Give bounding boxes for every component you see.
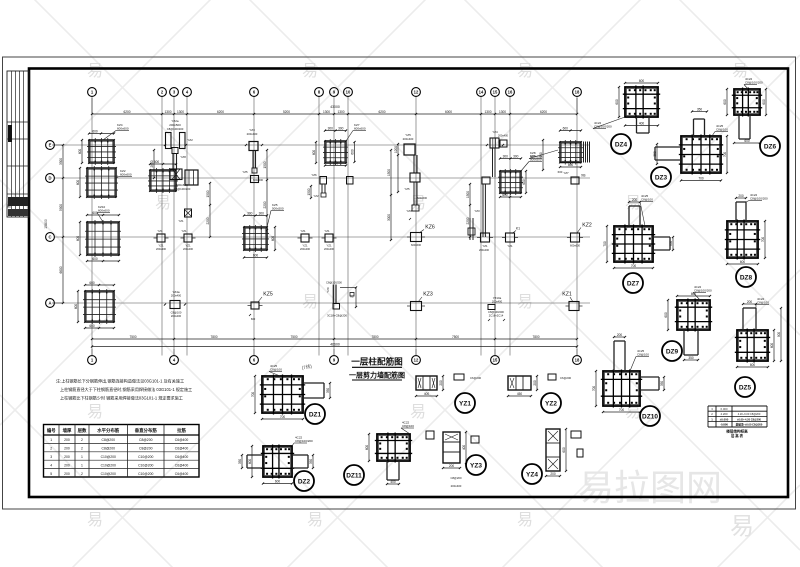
axis vertical lines <box>92 97 577 356</box>
svg-text:6000: 6000 <box>445 110 452 114</box>
svg-text:200: 200 <box>533 380 537 386</box>
svg-text:层数: 层数 <box>78 427 87 434</box>
svg-text:易: 易 <box>517 512 533 529</box>
svg-text:C8@100: C8@100 <box>716 128 728 132</box>
top axis circles <box>88 88 582 97</box>
svg-text:拉筋: 拉筋 <box>177 427 186 434</box>
svg-text:YZ7: YZ7 <box>563 171 569 175</box>
detail YZ3 <box>442 431 486 488</box>
wall column (A-9) <box>326 281 357 318</box>
svg-text:200x400: 200x400 <box>479 248 490 252</box>
svg-text:YZ1: YZ1 <box>300 229 306 233</box>
svg-text:1300: 1300 <box>337 110 344 114</box>
svg-text:600: 600 <box>154 160 160 164</box>
svg-text:DZ10: DZ10 <box>642 413 658 420</box>
svg-text:200: 200 <box>738 194 744 198</box>
svg-text:C10@200: C10@200 <box>138 463 153 467</box>
svg-text:14: 14 <box>479 90 484 95</box>
svg-text:C8@100/200: C8@100/200 <box>750 197 768 201</box>
svg-text:200x400: 200x400 <box>492 299 503 303</box>
detail DZ3 <box>651 108 728 188</box>
svg-text:300: 300 <box>247 212 253 216</box>
svg-text:C10@200: C10@200 <box>101 455 116 459</box>
bottom dimension lines <box>91 335 578 348</box>
svg-text:600: 600 <box>502 193 508 197</box>
detail DZ2 <box>238 436 314 492</box>
svg-text:600: 600 <box>563 127 569 131</box>
KZ1 square (A-18) <box>562 292 582 311</box>
svg-text:4.200: 4.200 <box>721 412 728 416</box>
svg-text:900: 900 <box>777 332 781 338</box>
svg-text:YZ1: YZ1 <box>482 244 488 248</box>
svg-text:XB: XB <box>581 174 586 178</box>
column (D-15) <box>498 154 542 198</box>
svg-text:6600: 6600 <box>59 266 63 273</box>
main title <box>349 356 405 381</box>
svg-text:易: 易 <box>410 404 426 421</box>
svg-text:300: 300 <box>259 212 265 216</box>
wall column (E-15) <box>474 130 508 237</box>
svg-text:垂直分布筋: 垂直分布筋 <box>135 427 158 434</box>
svg-text:易: 易 <box>517 294 533 311</box>
KZ2 square (C-18) <box>567 223 592 248</box>
svg-text:易: 易 <box>517 63 533 80</box>
svg-text:C8@200: C8@200 <box>102 438 116 442</box>
svg-text:600: 600 <box>312 150 316 156</box>
wall columns (D-9) <box>307 173 353 199</box>
svg-text:16: 16 <box>508 90 513 95</box>
svg-text:1200: 1200 <box>394 146 398 153</box>
svg-text:700: 700 <box>280 415 286 419</box>
svg-text:600: 600 <box>92 130 98 134</box>
svg-text:600: 600 <box>750 363 756 367</box>
svg-text:200x400: 200x400 <box>403 137 414 141</box>
svg-text:3000: 3000 <box>387 214 391 221</box>
svg-text:DZ8: DZ8 <box>740 274 753 281</box>
svg-text:D: D <box>48 176 51 181</box>
svg-text:18: 18 <box>575 90 580 95</box>
svg-text:C8@200: C8@200 <box>139 438 153 442</box>
wall squares (C-8,C-9) <box>298 229 337 251</box>
svg-text:YZ5: YZ5 <box>404 187 410 191</box>
svg-text:A: A <box>48 301 51 306</box>
svg-text:5900: 5900 <box>59 204 63 211</box>
svg-text:200: 200 <box>64 447 70 451</box>
svg-text:注:上柱钢筋长下分钢筋伸出,钢筋连接构造做法见03G101-: 注:上柱钢筋长下分钢筋伸出,钢筋连接构造做法见03G101-1 及有关施工 <box>56 378 184 384</box>
svg-text:46600: 46600 <box>330 343 340 347</box>
svg-text:1300: 1300 <box>323 110 330 114</box>
svg-text:700: 700 <box>592 386 596 392</box>
svg-text:12: 12 <box>414 90 419 95</box>
svg-text:600: 600 <box>275 480 281 484</box>
watermark glyphs <box>87 63 748 529</box>
svg-text:1: 1 <box>50 438 52 442</box>
svg-text:200x400: 200x400 <box>171 314 182 318</box>
svg-text:C8@200: C8@200 <box>450 476 462 480</box>
svg-text:一层柱配筋图: 一层柱配筋图 <box>351 356 403 367</box>
svg-text:300: 300 <box>338 127 344 131</box>
svg-text:5200: 5200 <box>283 110 290 114</box>
detail DZ10 <box>592 333 665 426</box>
svg-text:200x400: 200x400 <box>183 247 194 251</box>
svg-text:C8@100: C8@100 <box>757 301 769 305</box>
svg-text:C8@100/200: C8@100/200 <box>488 310 504 314</box>
column KZ4 (E-1) <box>78 123 129 165</box>
svg-text:12: 12 <box>414 358 419 363</box>
svg-text:±0.000: ±0.000 <box>720 417 729 421</box>
svg-text:2: 2 <box>81 472 83 476</box>
svg-text:7500: 7500 <box>452 335 459 339</box>
svg-text:300: 300 <box>503 155 509 159</box>
svg-text:43000: 43000 <box>330 105 340 109</box>
svg-text:600: 600 <box>615 99 619 105</box>
svg-text:C8@100: C8@100 <box>270 368 282 372</box>
svg-text:300: 300 <box>513 155 519 159</box>
detail YZ4 <box>522 428 583 484</box>
svg-text:C10@200: C10@200 <box>138 472 153 476</box>
svg-text:上柱钢筋直径大于下柱钢筋直径时,钢筋采用焊接做法 03G10: 上柱钢筋直径大于下柱钢筋直径时,钢筋采用焊接做法 03G101-1 规定施工 <box>60 386 192 392</box>
svg-text:200: 200 <box>439 380 443 386</box>
svg-text:YZ3: YZ3 <box>406 209 412 213</box>
svg-text:易: 易 <box>730 513 754 540</box>
svg-text:KZ3: KZ3 <box>423 292 433 298</box>
svg-text:600: 600 <box>76 236 80 242</box>
svg-text:YZ2: YZ2 <box>313 194 319 198</box>
wall squares (C-2,C-3) <box>154 229 196 251</box>
svg-text:DZ11: DZ11 <box>346 472 362 479</box>
svg-text:YZ1: YZ1 <box>507 244 513 248</box>
svg-text:KZ1: KZ1 <box>562 292 572 298</box>
svg-text:C8@100/200: C8@100/200 <box>295 439 313 443</box>
svg-text:C: C <box>48 235 51 240</box>
svg-text:200: 200 <box>64 438 70 442</box>
svg-text:层 高 表: 层 高 表 <box>730 433 744 438</box>
svg-text:600: 600 <box>723 99 727 105</box>
svg-text:200: 200 <box>550 472 556 476</box>
svg-text:600: 600 <box>770 343 774 349</box>
column KZ8 (E-18) <box>529 127 590 178</box>
svg-text:YZ1: YZ1 <box>157 229 163 233</box>
svg-text:7500: 7500 <box>290 335 297 339</box>
svg-text:2: 2 <box>81 447 83 451</box>
squares (C-13,C-15,C-16) <box>468 218 518 252</box>
legend table <box>708 406 767 438</box>
svg-text:700: 700 <box>723 152 727 158</box>
svg-text:2200: 2200 <box>466 217 470 224</box>
svg-text:200: 200 <box>449 464 455 468</box>
svg-text:600: 600 <box>76 180 80 186</box>
svg-text:4.20~6.00 C8@200: 4.20~6.00 C8@200 <box>738 412 761 416</box>
top dimension line <box>91 98 578 115</box>
svg-text:基础顶~±0.00 C8@200: 基础顶~±0.00 C8@200 <box>735 423 763 427</box>
stamp note <box>301 363 313 371</box>
svg-text:C8@100: C8@100 <box>171 311 182 315</box>
svg-text:1300: 1300 <box>499 110 506 114</box>
svg-text:1300: 1300 <box>177 110 184 114</box>
detail YZ2 <box>507 374 572 413</box>
svg-text:600x600: 600x600 <box>417 196 428 200</box>
svg-text:C10@200: C10@200 <box>138 455 153 459</box>
svg-text:DZ2: DZ2 <box>298 478 311 485</box>
svg-text:350: 350 <box>238 459 242 465</box>
svg-text:5: 5 <box>50 472 52 476</box>
detail DZ4 <box>593 79 660 154</box>
svg-text:2200: 2200 <box>206 217 210 224</box>
svg-text:200: 200 <box>64 455 70 459</box>
svg-text:C8@100/200: C8@100/200 <box>167 127 184 131</box>
svg-text:4: 4 <box>50 463 52 467</box>
svg-text:YZ1: YZ1 <box>324 229 330 233</box>
svg-text:600: 600 <box>562 447 566 453</box>
svg-text:C6@400: C6@400 <box>175 455 189 459</box>
svg-text:200x400: 200x400 <box>451 484 462 488</box>
svg-text:350: 350 <box>309 459 313 465</box>
svg-text:1500: 1500 <box>263 161 267 168</box>
svg-text:350: 350 <box>688 356 694 360</box>
svg-text:DZ4: DZ4 <box>615 141 628 148</box>
svg-text:1500: 1500 <box>206 190 210 197</box>
svg-text:600: 600 <box>92 257 98 261</box>
svg-text:600: 600 <box>664 312 668 318</box>
svg-text:易: 易 <box>87 404 103 421</box>
svg-text:200x400: 200x400 <box>156 247 167 251</box>
svg-text:YZ1: YZ1 <box>178 219 184 223</box>
svg-text:楼层结构标高: 楼层结构标高 <box>726 429 748 434</box>
axis horizontal lines <box>55 145 591 303</box>
svg-text:C8@200: C8@200 <box>139 447 153 451</box>
svg-text:350: 350 <box>697 108 703 112</box>
svg-text:600: 600 <box>89 281 95 285</box>
svg-text:YZ1: YZ1 <box>326 244 332 248</box>
svg-text:600: 600 <box>78 149 82 155</box>
detail YZ1 <box>415 374 482 413</box>
wall column (E-12) <box>394 133 428 211</box>
svg-text:C8@100/200: C8@100/200 <box>326 281 342 285</box>
svg-text:400: 400 <box>639 122 645 126</box>
svg-text:600: 600 <box>248 459 252 465</box>
svg-text:DZ7: DZ7 <box>627 280 640 287</box>
svg-text:YZ4: YZ4 <box>492 130 498 134</box>
svg-text:DZ6: DZ6 <box>764 143 777 150</box>
inner thick border <box>29 69 788 498</box>
svg-text:700: 700 <box>761 237 765 243</box>
svg-text:C8@100: C8@100 <box>637 353 649 357</box>
svg-text:300: 300 <box>328 127 334 131</box>
svg-text:200: 200 <box>632 198 638 202</box>
detail DZ6 <box>723 77 780 156</box>
svg-text:YZ3: YZ3 <box>474 209 480 213</box>
svg-text:C8@100/200: C8@100/200 <box>694 289 712 293</box>
svg-text:YZ5: YZ5 <box>242 170 248 174</box>
svg-text:200x400: 200x400 <box>324 247 335 251</box>
svg-text:易: 易 <box>87 63 103 80</box>
svg-text:YZ1: YZ1 <box>181 229 187 233</box>
wall column (E-6) <box>242 128 263 183</box>
svg-text:3300: 3300 <box>59 158 63 165</box>
svg-text:C10@200: C10@200 <box>101 463 116 467</box>
svg-text:600: 600 <box>351 149 355 155</box>
svg-text:DZ1: DZ1 <box>309 411 322 418</box>
svg-text:200: 200 <box>747 300 753 304</box>
svg-text:350: 350 <box>326 388 330 394</box>
svg-text:200x400: 200x400 <box>171 294 182 298</box>
svg-text:易拉图网: 易拉图网 <box>578 467 722 508</box>
svg-text:KZ5: KZ5 <box>263 292 273 298</box>
detail DZ5 <box>735 297 782 397</box>
column KZ10 (C-1) <box>76 205 121 262</box>
column KZ5-section (C-6) <box>242 203 284 259</box>
svg-text:易: 易 <box>87 512 103 529</box>
svg-text:C6@400: C6@400 <box>175 472 189 476</box>
svg-text:200: 200 <box>64 472 70 476</box>
svg-text:200x400: 200x400 <box>498 134 509 138</box>
svg-text:600: 600 <box>740 260 746 264</box>
svg-text:400: 400 <box>462 445 466 451</box>
svg-text:K2: K2 <box>350 295 354 299</box>
KZ6 square (C-12) <box>407 225 435 248</box>
wall column (A-4) <box>164 290 186 318</box>
detail DZ9 <box>662 285 712 361</box>
svg-text:DZ5: DZ5 <box>739 384 752 391</box>
svg-text:600: 600 <box>639 79 645 83</box>
svg-text:C6@400: C6@400 <box>175 463 189 467</box>
svg-text:700: 700 <box>603 241 607 247</box>
svg-text:编号: 编号 <box>47 427 56 434</box>
svg-text:700: 700 <box>698 177 704 181</box>
KZ3 square (A-12) <box>407 292 433 311</box>
rebar table <box>44 425 200 478</box>
svg-text:700: 700 <box>631 264 637 268</box>
svg-text:易: 易 <box>302 294 318 311</box>
detail DZ8 <box>725 193 768 287</box>
svg-text:2200: 2200 <box>263 201 267 208</box>
svg-text:E: E <box>49 143 52 148</box>
svg-text:2C16+2C14: 2C16+2C14 <box>489 314 504 318</box>
svg-text:600x600: 600x600 <box>120 173 132 177</box>
svg-text:6200: 6200 <box>123 110 130 114</box>
wall column (D-18) <box>563 171 579 184</box>
svg-text:C8@100: C8@100 <box>641 198 653 202</box>
svg-text:450: 450 <box>517 392 523 396</box>
svg-text:700: 700 <box>619 408 625 412</box>
svg-text:500x500: 500x500 <box>272 207 284 211</box>
svg-text:7500: 7500 <box>129 335 136 339</box>
svg-text:400: 400 <box>424 392 430 396</box>
svg-text:1500: 1500 <box>466 191 470 198</box>
notes <box>56 378 192 401</box>
svg-text:DZ9: DZ9 <box>666 348 679 355</box>
svg-text:1: 1 <box>81 463 83 467</box>
svg-text:200: 200 <box>617 333 623 337</box>
svg-text:600x600: 600x600 <box>570 244 581 248</box>
svg-text:6200: 6200 <box>378 110 385 114</box>
svg-text:350: 350 <box>660 381 664 387</box>
svg-text:YZ3: YZ3 <box>470 462 482 469</box>
svg-text:YZ1: YZ1 <box>459 400 471 407</box>
svg-text:600: 600 <box>365 445 369 451</box>
svg-text:600x600: 600x600 <box>411 243 422 247</box>
KZ5 square (A-6) <box>248 292 273 322</box>
svg-text:C8@100/200: C8@100/200 <box>745 81 763 85</box>
svg-text:6200: 6200 <box>540 110 547 114</box>
left dimension line <box>44 144 64 304</box>
svg-text:C6@200: C6@200 <box>560 376 572 380</box>
svg-text:一层剪力墙配筋图: 一层剪力墙配筋图 <box>349 371 405 380</box>
svg-text:600x600: 600x600 <box>354 127 366 131</box>
svg-text:2: 2 <box>50 447 52 451</box>
svg-text:易: 易 <box>302 63 318 80</box>
svg-text:-0.800: -0.800 <box>720 423 728 427</box>
svg-text:500x500: 500x500 <box>530 158 542 162</box>
wall column (A-15) <box>488 296 505 321</box>
column KZ7 (E-9) <box>312 123 366 167</box>
svg-text:7800: 7800 <box>210 335 217 339</box>
svg-text:1500: 1500 <box>307 188 311 195</box>
detail DZ11 <box>344 421 434 486</box>
svg-text:600x600: 600x600 <box>253 178 264 182</box>
svg-text:600: 600 <box>74 304 78 310</box>
bottom axis circles <box>88 349 582 364</box>
svg-text:YZ9: YZ9 <box>326 287 330 293</box>
svg-text:YZ8: YZ8 <box>180 155 186 159</box>
outer thin border <box>3 57 796 509</box>
svg-text:6.000: 6.000 <box>721 407 728 411</box>
svg-text:2: 2 <box>81 438 83 442</box>
svg-text:C6@200: C6@200 <box>470 376 482 380</box>
svg-text:YZ1: YZ1 <box>302 244 308 248</box>
svg-text:YZ4: YZ4 <box>526 471 538 478</box>
svg-text:15: 15 <box>493 90 498 95</box>
svg-text:C10@200: C10@200 <box>101 472 116 476</box>
title strip <box>7 71 29 217</box>
svg-text:1300: 1300 <box>164 110 171 114</box>
svg-text:600x600: 600x600 <box>117 127 129 131</box>
svg-text:600: 600 <box>271 236 275 242</box>
svg-text:600: 600 <box>762 99 766 105</box>
svg-text:600: 600 <box>333 162 339 166</box>
svg-text:C8@200: C8@200 <box>102 447 116 451</box>
svg-text:DZ3: DZ3 <box>655 174 668 181</box>
svg-text:C8@100: C8@100 <box>402 424 414 428</box>
svg-text:15: 15 <box>493 358 498 363</box>
svg-text:600: 600 <box>89 324 95 328</box>
svg-text:200: 200 <box>64 463 70 467</box>
svg-text:400: 400 <box>390 480 396 484</box>
svg-text:18: 18 <box>575 358 580 363</box>
svg-text:YZ2: YZ2 <box>545 400 557 407</box>
column KZ2 (D-1) <box>76 166 132 199</box>
svg-text:KZ2: KZ2 <box>582 223 592 229</box>
column KZ11 (A-1) <box>83 281 116 329</box>
svg-text:C6@400: C6@400 <box>175 438 189 442</box>
wall column cluster (E-2) <box>164 119 193 191</box>
svg-text:墙厚: 墙厚 <box>63 427 72 434</box>
svg-text:YZ2: YZ2 <box>187 138 193 142</box>
svg-text:350: 350 <box>653 151 657 157</box>
svg-text:3C18+C8@200: 3C18+C8@200 <box>327 314 347 318</box>
svg-text:1300: 1300 <box>484 110 491 114</box>
svg-text:易: 易 <box>307 512 323 529</box>
svg-text:水平分布筋: 水平分布筋 <box>96 427 120 434</box>
svg-text:350: 350 <box>669 241 673 247</box>
svg-text:600: 600 <box>522 179 526 185</box>
svg-text:7800: 7800 <box>532 335 539 339</box>
svg-text:YZ4a: YZ4a <box>172 290 180 294</box>
detail DZ1 <box>251 364 331 424</box>
svg-text:YZ1: YZ1 <box>158 244 164 248</box>
svg-text:易: 易 <box>155 195 171 212</box>
svg-text:YZ6: YZ6 <box>311 173 317 177</box>
